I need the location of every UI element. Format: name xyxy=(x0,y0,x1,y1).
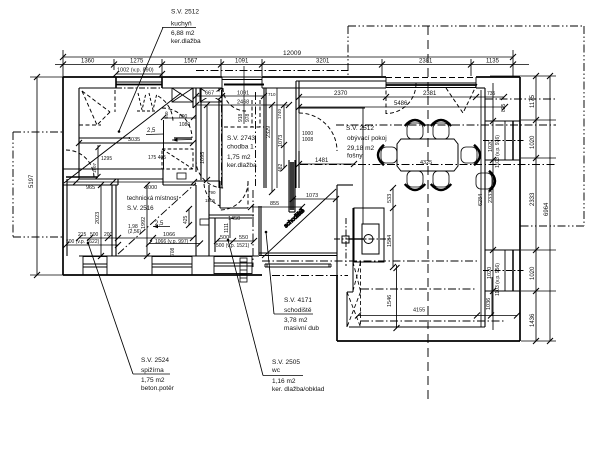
right wall window 2 xyxy=(485,250,520,291)
boxed marker kitchen door xyxy=(177,173,186,179)
entrance canopy band xyxy=(222,77,262,80)
svg-text:1584: 1584 xyxy=(387,235,393,247)
svg-text:2,5: 2,5 xyxy=(155,221,164,227)
kitchen niche dashed box xyxy=(162,149,193,169)
svg-text:5197: 5197 xyxy=(29,174,35,188)
interior face bottom-right wall xyxy=(349,326,485,328)
spizirna door arc xyxy=(66,150,94,178)
centerline vertical axis xyxy=(427,26,429,400)
right chain dim xyxy=(490,76,556,341)
svg-text:425: 425 xyxy=(183,215,189,224)
svg-text:S.V. 2743: S.V. 2743 xyxy=(227,135,255,142)
label chodba xyxy=(227,135,257,169)
bottom dims 215/500/200 1066 xyxy=(76,235,196,241)
roof overhang dash-dot rectangle top right xyxy=(348,26,584,226)
top total dim line 12009 xyxy=(60,54,516,60)
landing below stairs xyxy=(265,264,331,267)
svg-text:29,18 m2: 29,18 m2 xyxy=(347,145,374,152)
label wc xyxy=(227,239,325,393)
kitchen dashed swing arc right xyxy=(158,96,173,122)
1036 vertical dim xyxy=(491,277,493,316)
window1 axis dashdot right xyxy=(483,140,524,142)
top chain dim line xyxy=(55,50,529,80)
small dim line kitchen wall xyxy=(161,115,196,120)
chodba lower door arc xyxy=(196,160,224,188)
kitchen door to chodba swing xyxy=(162,108,192,138)
svg-text:5486: 5486 xyxy=(394,101,408,107)
label obyvaci pokoj xyxy=(346,125,387,160)
strip 2329 vertical dim xyxy=(269,102,275,195)
svg-text:spižírna: spižírna xyxy=(141,367,164,374)
svg-text:1360: 1360 xyxy=(81,59,95,65)
svg-text:1095: 1095 xyxy=(200,152,206,164)
chodba dashdot axis vertical 2 xyxy=(255,92,257,186)
svg-text:825: 825 xyxy=(501,103,507,112)
svg-text:2370: 2370 xyxy=(334,91,348,97)
svg-text:masivní dub: masivní dub xyxy=(284,325,319,332)
wall kitchen / chodba (right of fridge) xyxy=(193,88,201,180)
exterior wall right outer face xyxy=(519,77,521,341)
svg-text:fošny: fošny xyxy=(347,153,363,160)
bottom-left windows band xyxy=(83,257,252,276)
kitchen counter crossed box 2 xyxy=(200,88,222,102)
svg-text:1103 (v.p. 956): 1103 (v.p. 956) xyxy=(495,263,501,296)
chair left xyxy=(378,145,397,165)
svg-text:1275: 1275 xyxy=(130,59,144,65)
sub dim line 500 vp1622 xyxy=(63,242,121,248)
living room dashdot axis y164 xyxy=(300,164,556,166)
stairwell right wall xyxy=(337,185,353,275)
svg-text:500: 500 xyxy=(90,232,99,238)
chair top 1 xyxy=(405,120,425,139)
fireplace block xyxy=(342,208,384,262)
living room top interior chain 2370/2381/735 xyxy=(296,94,507,100)
svg-text:ker.dlažba: ker.dlažba xyxy=(227,162,257,169)
svg-text:1450: 1450 xyxy=(228,216,240,222)
chodba right wall xyxy=(264,88,266,188)
spizirna vertical dim 2023 xyxy=(98,182,104,259)
label kuchyn xyxy=(118,9,201,133)
right wall window 1 xyxy=(485,121,520,160)
stair dashdot vertical xyxy=(252,190,254,267)
technicka mistnost diagonal dashdot xyxy=(118,183,196,254)
armchair right low xyxy=(476,171,495,191)
sub dim line 1066 vp997 xyxy=(146,241,203,247)
label schodiste xyxy=(265,231,320,332)
exterior wall bottom-right outer face xyxy=(337,340,520,342)
wall kitchen / technicka mistnost xyxy=(63,169,196,185)
chodba left wall xyxy=(219,88,222,188)
wc top wall xyxy=(209,215,254,252)
chair bottom 1 xyxy=(405,171,425,190)
svg-text:1175: 1175 xyxy=(530,94,536,108)
svg-text:708: 708 xyxy=(170,247,176,256)
svg-text:1091: 1091 xyxy=(237,91,249,97)
svg-text:735: 735 xyxy=(487,91,496,97)
svg-text:1,75 m2: 1,75 m2 xyxy=(141,377,165,384)
interior face left wall xyxy=(78,88,80,179)
svg-text:2381: 2381 xyxy=(423,91,437,97)
svg-text:2468: 2468 xyxy=(237,100,249,106)
kitchen dashed sink symbol xyxy=(137,93,158,111)
svg-text:1080: 1080 xyxy=(179,122,190,128)
svg-text:1295: 1295 xyxy=(101,156,112,162)
kitchen fridge crossed box xyxy=(172,88,193,102)
svg-text:S.V. 4171: S.V. 4171 xyxy=(284,297,312,304)
living room west wall xyxy=(296,81,299,188)
svg-text:978: 978 xyxy=(245,113,251,122)
slope arrow tech 2,5 xyxy=(153,225,170,229)
svg-text:3,78 m2: 3,78 m2 xyxy=(284,317,308,324)
living room dashdot axis y321 xyxy=(361,320,505,322)
chodba dashdot axis vertical xyxy=(221,90,223,188)
kitchen niche left wall xyxy=(163,120,165,169)
boxed marker wc wall xyxy=(200,219,209,225)
living room dashdot axis y261 xyxy=(262,260,477,262)
svg-text:3201: 3201 xyxy=(316,59,330,65)
svg-text:482: 482 xyxy=(278,163,284,172)
chair right xyxy=(461,145,480,165)
svg-text:4325: 4325 xyxy=(420,160,432,166)
svg-text:S.V. 2512: S.V. 2512 xyxy=(171,9,199,16)
exterior wall left outer face xyxy=(62,77,64,275)
entrance door opening xyxy=(222,77,262,88)
svg-text:710: 710 xyxy=(268,92,276,97)
wc door arc xyxy=(220,182,248,210)
6284 vertical line xyxy=(480,90,482,327)
svg-text:1806: 1806 xyxy=(205,198,216,203)
svg-text:S.V. 2516: S.V. 2516 xyxy=(127,205,154,212)
svg-text:1036: 1036 xyxy=(486,298,492,310)
chodba wardrobe dashed xyxy=(224,100,264,127)
svg-text:obývací pokoj: obývací pokoj xyxy=(347,135,387,142)
stair top corridor walls xyxy=(289,160,295,212)
svg-text:2000: 2000 xyxy=(145,185,157,191)
overhang dashes above sliding door xyxy=(386,77,476,79)
svg-text:2,5: 2,5 xyxy=(147,128,156,134)
kitchen door leaf xyxy=(174,137,192,139)
svg-text:940: 940 xyxy=(164,111,169,119)
svg-text:2333: 2333 xyxy=(530,192,536,206)
svg-text:550: 550 xyxy=(239,235,248,241)
svg-text:kuchyň: kuchyň xyxy=(171,21,192,28)
svg-text:(2,56): (2,56) xyxy=(128,229,141,235)
svg-text:1073: 1073 xyxy=(306,193,318,199)
inner right chain lines xyxy=(490,83,496,330)
svg-text:965: 965 xyxy=(86,185,95,191)
svg-text:215: 215 xyxy=(78,232,87,238)
top chain ticks xyxy=(60,62,516,68)
living room dashdot axis y125 xyxy=(336,124,556,126)
svg-text:1,75 m2: 1,75 m2 xyxy=(227,154,251,161)
chimney shaft below wc xyxy=(240,258,247,282)
svg-text:2333: 2333 xyxy=(488,191,494,203)
svg-text:1111: 1111 xyxy=(224,223,230,233)
sliding glass door top of living room xyxy=(386,77,476,88)
svg-text:technická místnost: technická místnost xyxy=(127,195,179,202)
svg-text:schodiště: schodiště xyxy=(284,307,312,314)
door chodba to living room swing xyxy=(299,113,337,151)
wc lobby door line dashed xyxy=(247,181,249,208)
svg-text:2023: 2023 xyxy=(95,212,101,224)
svg-text:12009: 12009 xyxy=(283,50,301,57)
kitchen window top xyxy=(116,77,162,88)
svg-text:1546: 1546 xyxy=(387,295,393,307)
long diagonal section line through kitchen xyxy=(64,93,181,183)
svg-text:200: 200 xyxy=(104,232,113,238)
svg-text:1073: 1073 xyxy=(278,135,284,147)
kitchen 3035 dim xyxy=(76,140,196,146)
svg-text:855: 855 xyxy=(270,201,279,207)
svg-text:890: 890 xyxy=(179,114,188,120)
stair diagonal section xyxy=(262,189,336,258)
exterior wall bottom-left outer face xyxy=(63,274,262,276)
svg-text:500 (v.p. 1521): 500 (v.p. 1521) xyxy=(216,243,250,249)
1073 dim stairs xyxy=(290,196,339,202)
svg-text:500 (v.p. 1622): 500 (v.p. 1622) xyxy=(66,239,100,245)
bottom 4155 dim xyxy=(355,313,520,319)
svg-text:1992: 1992 xyxy=(141,217,147,229)
living room 5486 dim xyxy=(296,104,508,110)
window2 axis dashdot right xyxy=(483,270,524,272)
svg-text:1807: 1807 xyxy=(92,162,97,173)
svg-text:3035: 3035 xyxy=(128,137,140,143)
tech room 425 dim xyxy=(186,206,192,228)
entrance door swing arc xyxy=(223,88,246,111)
chair top 2 xyxy=(431,120,451,139)
svg-text:175 405: 175 405 xyxy=(148,155,166,161)
svg-text:1091: 1091 xyxy=(235,59,249,65)
chodba 1095 vertical dim xyxy=(204,102,210,183)
svg-text:1,16 m2: 1,16 m2 xyxy=(272,378,296,385)
wc dims 500 550 xyxy=(214,238,257,244)
svg-text:ker.dlažba: ker.dlažba xyxy=(171,38,201,45)
roof overhang dashdot over entrance xyxy=(196,70,348,72)
chodba 667 1091 dim xyxy=(193,93,267,99)
spizirna right wall xyxy=(112,185,116,256)
chodba 2468 dim xyxy=(193,102,292,108)
533 1584 vertical dim xyxy=(390,185,396,270)
svg-text:S.V. 2505: S.V. 2505 xyxy=(272,359,300,366)
svg-text:1103 (v.p. 976): 1103 (v.p. 976) xyxy=(495,135,501,168)
svg-text:6964: 6964 xyxy=(544,202,550,216)
exterior wall step down at x337 xyxy=(336,275,338,341)
svg-text:1008: 1008 xyxy=(302,137,313,143)
technicka mistnost right wall xyxy=(196,185,209,256)
svg-text:6284: 6284 xyxy=(478,194,484,206)
tech room vertical dim 1992 xyxy=(144,182,150,259)
svg-text:6,88 m2: 6,88 m2 xyxy=(171,30,195,37)
left part dashdot horizontal y99 extension xyxy=(485,98,556,100)
svg-text:1740: 1740 xyxy=(277,108,282,119)
svg-text:667: 667 xyxy=(205,91,214,97)
1481 dim xyxy=(296,161,357,167)
overhang dashdot below stairs xyxy=(272,275,348,277)
window axis dashdot xyxy=(116,87,162,89)
dining table xyxy=(397,139,458,171)
entrance door panel xyxy=(224,84,264,86)
svg-text:1481: 1481 xyxy=(315,158,329,164)
label spizirna xyxy=(87,242,175,392)
svg-text:beton.potěr: beton.potěr xyxy=(141,385,175,392)
svg-text:4155: 4155 xyxy=(413,308,425,314)
stairwell left wall xyxy=(259,206,261,255)
living room dashdot axis y289 xyxy=(361,288,477,290)
svg-text:1020: 1020 xyxy=(488,140,494,152)
svg-text:1020: 1020 xyxy=(530,266,536,280)
svg-text:1135: 1135 xyxy=(486,59,500,65)
fireplace centerline xyxy=(345,218,347,266)
kitchen counter edge lines xyxy=(79,138,193,143)
svg-text:ker. dlažba/obklad: ker. dlažba/obklad xyxy=(272,386,325,393)
wc 1111 vertical dim xyxy=(229,218,231,238)
svg-text:918: 918 xyxy=(238,113,244,122)
chodba lower stepped wall xyxy=(196,181,248,208)
svg-text:533: 533 xyxy=(387,194,393,203)
kitchen small vertical dim xyxy=(96,145,101,179)
855 dim xyxy=(248,204,305,210)
svg-text:790: 790 xyxy=(208,190,216,195)
svg-text:2381: 2381 xyxy=(419,59,433,65)
svg-text:S.V. 2524: S.V. 2524 xyxy=(141,357,169,364)
svg-text:1020: 1020 xyxy=(530,135,536,149)
entrance axis vertical xyxy=(243,66,245,124)
left dim 5197 xyxy=(30,74,63,278)
slope arrow kitchen 2,5 xyxy=(146,134,192,142)
interior face bottom-left wall xyxy=(79,255,259,257)
svg-text:1567: 1567 xyxy=(184,59,198,65)
kitchen window sub dim xyxy=(113,71,165,77)
svg-text:1002 (v.p. 890): 1002 (v.p. 890) xyxy=(117,68,154,74)
svg-text:1020: 1020 xyxy=(487,267,493,279)
living room top wall inner ledge xyxy=(296,80,386,82)
duct strip wall xyxy=(276,88,278,188)
strip 1073/482 vertical dim xyxy=(281,102,287,171)
svg-text:2329: 2329 xyxy=(266,126,272,138)
sliding door swing dashed xyxy=(386,84,477,115)
svg-text:S.V. 2512: S.V. 2512 xyxy=(346,125,374,132)
corner hatched pier SW living room xyxy=(347,262,353,327)
beam edge vertical living room xyxy=(362,108,364,224)
svg-text:wc: wc xyxy=(271,367,281,374)
svg-text:1066 (v.p. 997): 1066 (v.p. 997) xyxy=(155,239,189,245)
terrace dash-dot rectangle left xyxy=(13,132,63,237)
interior face right wall xyxy=(484,88,486,327)
stairs bottom edge xyxy=(259,253,337,256)
svg-text:chodba 1: chodba 1 xyxy=(227,144,254,151)
1546 vertical dim xyxy=(394,265,400,331)
exterior wall top outer face xyxy=(63,76,520,78)
interior face top wall kitchen xyxy=(79,87,485,89)
kitchen dashed corner cone xyxy=(79,90,115,125)
svg-text:1436: 1436 xyxy=(530,313,536,327)
965 2000 dim line xyxy=(67,179,197,185)
chair bottom 2 xyxy=(431,171,451,190)
svg-text:1066: 1066 xyxy=(163,232,175,238)
